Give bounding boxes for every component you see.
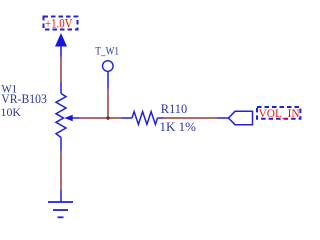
resistor R110 left lead [122,117,133,119]
ground stub [60,190,62,203]
potentiometer wiper arrow [64,115,72,121]
test point pin [107,71,109,88]
potentiometer W1 pin top [60,82,62,94]
svg-text:T_W1: T_W1 [95,46,119,58]
resistor R110 body [132,112,158,125]
power symbol arrow [55,33,67,47]
pot pin bottom [60,138,62,151]
power port +1.0V dashed box [44,17,78,30]
svg-text:VOL_IN: VOL_IN [259,106,300,120]
port stub [217,117,229,119]
ground bar 1 [48,201,73,203]
ground bar 2 [53,209,68,211]
svg-text:R110: R110 [161,102,187,116]
wire T_W1 down [107,89,109,119]
wire wiper to junction to R110 [79,117,122,119]
ground bar 3 [58,216,64,218]
junction dot [106,116,111,121]
wire R110 to port [164,117,218,119]
svg-text:+1.0V: +1.0V [45,17,73,31]
wire pot to ground [60,151,62,190]
svg-text:10K: 10K [1,105,22,119]
net label VOL_IN dashed box [257,107,300,119]
test point T_W1 circle [103,61,114,72]
potentiometer W1 body [56,94,66,138]
wire power to pot [60,57,62,83]
resistor R110 right lead [158,117,164,119]
svg-text:1K 1%: 1K 1% [160,120,197,134]
port symbol [229,111,253,124]
